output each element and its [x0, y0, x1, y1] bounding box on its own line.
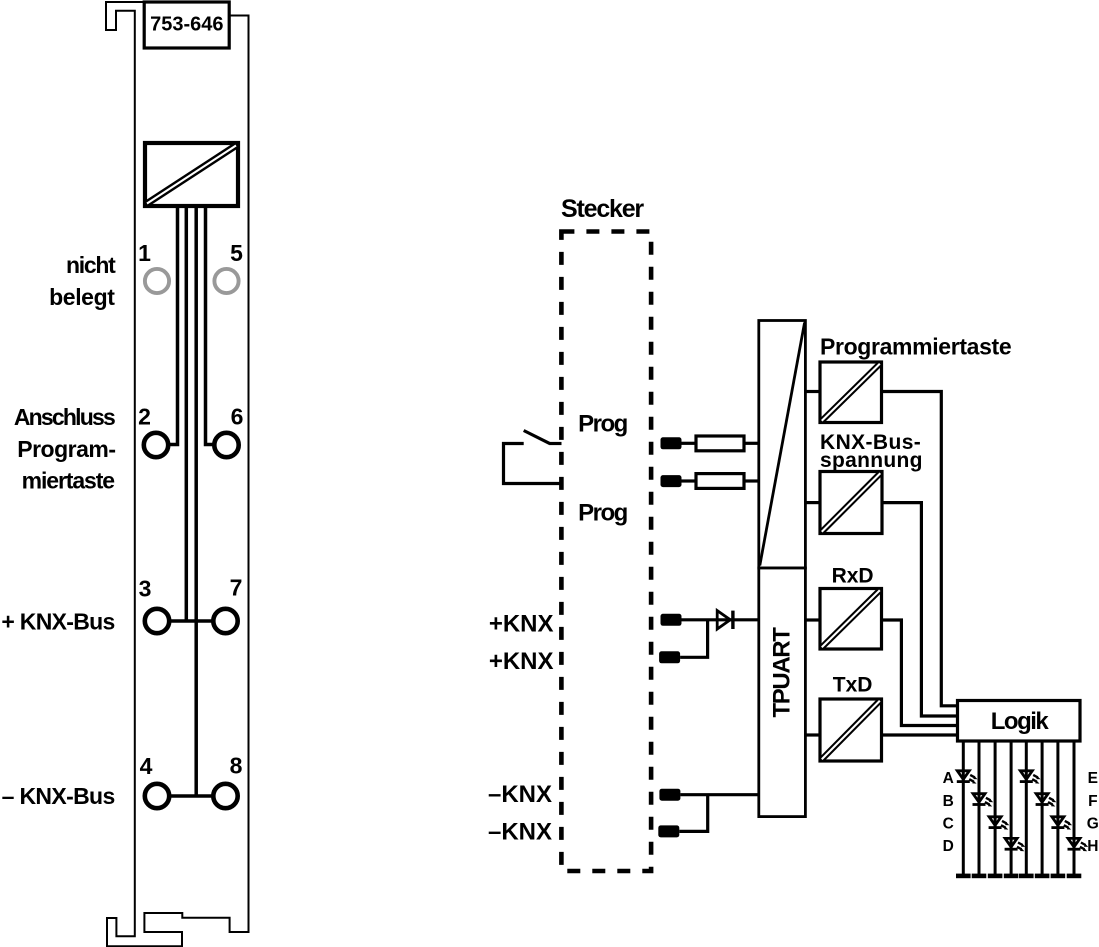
connector pin +KNX (upper) [661, 614, 682, 626]
svg-text:2: 2 [138, 404, 151, 430]
svg-text:Logik: Logik [991, 708, 1050, 735]
svg-text:3: 3 [139, 576, 152, 602]
connector pin Prog (upper) [661, 437, 682, 449]
wire pin 4 to pin 8 [157, 794, 226, 797]
connector pin -KNX (lower) [658, 825, 679, 837]
wire from block to pin 6 [206, 206, 225, 445]
svg-text:belegt: belegt [49, 284, 115, 310]
svg-text:nicht: nicht [66, 252, 116, 278]
pin 3 contact [145, 609, 169, 633]
diode D1 [717, 611, 733, 629]
level converter block (ramp symbol) [759, 321, 806, 569]
svg-text:G: G [1087, 816, 1099, 833]
svg-text:spannung: spannung [820, 449, 923, 472]
svg-text:7: 7 [230, 575, 243, 601]
svg-text:8: 8 [230, 753, 243, 779]
svg-text:753-646: 753-646 [150, 14, 223, 36]
svg-text:–KNX: –KNX [488, 781, 552, 808]
svg-text:+ KNX-Bus: + KNX-Bus [1, 609, 114, 635]
LED E [1020, 771, 1041, 784]
wire from block to pin 2 [158, 206, 178, 445]
svg-text:A: A [943, 770, 954, 787]
svg-text:6: 6 [231, 404, 244, 430]
wire resistor R2 to U2 [744, 479, 759, 482]
svg-text:E: E [1088, 770, 1098, 787]
LED D [1005, 838, 1026, 851]
wire from block to pin 4 row [194, 206, 198, 796]
svg-text:TxD: TxD [833, 674, 873, 697]
svg-text:TPUART: TPUART [769, 627, 796, 718]
electronics block U1 (isolation symbol) [145, 143, 238, 206]
pin 5 contact (not used) [214, 269, 238, 293]
wire resistor R1 to U2 [744, 442, 759, 445]
connector outline (dashed box Stecker) [561, 232, 651, 872]
svg-text:H: H [1087, 838, 1098, 855]
pin 6 contact [214, 433, 238, 457]
module outline 753-646 housing [106, 2, 249, 946]
svg-text:+KNX: +KNX [489, 611, 554, 638]
switch S1 (Programmiertaste button) [504, 431, 562, 484]
optocoupler U6 TxD [820, 699, 882, 761]
svg-text:1: 1 [138, 240, 151, 266]
wire junction +KNX lower [680, 620, 708, 658]
pin 2 contact [144, 433, 168, 457]
wire U6 output to Logik [882, 733, 958, 736]
connector pin Prog (lower) [661, 475, 682, 487]
svg-text:Anschluss: Anschluss [14, 404, 115, 430]
svg-text:RxD: RxD [832, 565, 874, 588]
wire from block to pin 3 row [185, 206, 189, 621]
wire +KNX to TPUART [682, 618, 760, 621]
ground bus bar [956, 874, 1081, 879]
svg-text:miertaste: miertaste [22, 468, 115, 494]
svg-text:–KNX: –KNX [488, 819, 552, 846]
LED column wires [963, 741, 1074, 876]
wire U5 output to Logik [882, 620, 958, 726]
wire pin to resistor R1 [682, 442, 697, 445]
wire U2 to optocoupler U3 [805, 390, 820, 393]
svg-text:5: 5 [230, 240, 243, 266]
svg-text:Program-: Program- [17, 436, 115, 462]
svg-text:D: D [943, 838, 954, 855]
pin 7 contact [213, 609, 237, 633]
svg-text:Programmiertaste: Programmiertaste [820, 334, 1011, 360]
wire -KNX to TPUART [680, 793, 759, 796]
LED G [1051, 817, 1072, 830]
wire pin 3 to pin 7 [157, 619, 226, 622]
resistor R2 [696, 474, 744, 489]
optocoupler U5 RxD [820, 589, 882, 650]
pin 8 contact [213, 784, 237, 808]
wire U2 to optocoupler U4 [805, 501, 820, 504]
pin 1 contact (not used) [145, 269, 169, 293]
svg-text:C: C [943, 816, 954, 833]
svg-text:B: B [943, 793, 954, 810]
optocoupler U4 KNX-Busspannung [820, 472, 882, 534]
svg-text:Prog: Prog [578, 500, 628, 527]
label box 753-646 [144, 2, 229, 48]
wire U3 output to Logik [882, 392, 958, 706]
LED A [957, 771, 978, 784]
wire U2 to optocoupler U6 [805, 733, 820, 736]
IC U2 TPUART [759, 568, 806, 817]
connector pin +KNX (lower) [659, 651, 680, 663]
wire U4 output to Logik [882, 503, 958, 716]
svg-text:– KNX-Bus: – KNX-Bus [2, 783, 115, 809]
svg-text:Stecker: Stecker [561, 195, 644, 223]
resistor R1 [696, 436, 744, 451]
svg-text:+KNX: +KNX [489, 648, 554, 675]
LED F [1036, 794, 1057, 807]
LED C [989, 817, 1010, 830]
logic block U7 Logik [958, 701, 1081, 742]
LED B [973, 794, 994, 807]
optocoupler U3 Programmiertaste [820, 362, 882, 423]
wire junction -KNX lower [679, 795, 707, 832]
connector pin -KNX (upper) [659, 789, 680, 801]
LED H [1068, 838, 1089, 851]
svg-text:F: F [1088, 793, 1097, 810]
svg-text:Prog: Prog [578, 411, 628, 438]
wire U2 to optocoupler U5 [805, 618, 820, 621]
pin 4 contact [145, 784, 169, 808]
wire pin to resistor R2 [682, 479, 697, 482]
svg-text:4: 4 [140, 753, 153, 779]
